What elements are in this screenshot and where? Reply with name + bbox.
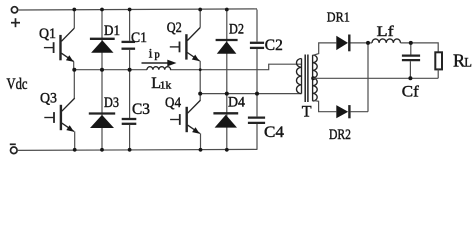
diode D1 (90, 39, 115, 53)
svg-text:DR2: DR2 (329, 127, 351, 143)
node bottom rail / Q3 (73, 148, 77, 152)
node bottom rail / D3 (100, 148, 104, 152)
negative input terminal (11, 147, 18, 154)
svg-text:T: T (302, 104, 312, 121)
wire node to Lf (368, 42, 372, 44)
wire RL lower leg (437, 69, 439, 78)
svg-text:D4: D4 (228, 95, 246, 111)
node top rail / Q2 (198, 8, 202, 12)
capacitor C2 (250, 43, 264, 48)
diode D3 (89, 114, 115, 129)
wire DR1 cathode to node (351, 42, 369, 44)
svg-text:Q3: Q3 (40, 91, 57, 107)
node top rail / Q1 (72, 8, 76, 12)
node bottom rail / Q4 (199, 148, 203, 152)
wire Q2 collector leg (199, 10, 201, 28)
wire C4 upper leg (256, 94, 258, 117)
wire C2 lower leg (256, 49, 258, 94)
wire secondary top to DR1 (313, 43, 337, 56)
wire Q3 emitter leg (74, 131, 76, 149)
node Lf / Cf (409, 41, 413, 45)
node rail A / C1 C3 (128, 68, 132, 72)
svg-text:i: i (149, 46, 153, 61)
diode D2 (216, 40, 238, 54)
wire Cf upper leg (410, 43, 412, 55)
wire top positive rail (18, 9, 257, 10)
node Cf / return rail (408, 76, 412, 80)
node rail B / Q2 Q4 (198, 92, 202, 96)
transistor Q2 (170, 28, 200, 62)
wire D2 leg (226, 10, 228, 94)
transformer secondary winding (313, 55, 318, 101)
svg-text:R: R (453, 50, 465, 70)
node rail A crossing Q2 leg (199, 68, 202, 71)
positive input terminal (11, 7, 17, 13)
svg-text:D2: D2 (229, 22, 244, 38)
inductor L1k (147, 67, 171, 70)
node bottom rail / D4 (225, 148, 229, 152)
rectifier diode DR2 (336, 105, 349, 118)
wire rectifier output vertical (367, 43, 369, 112)
wire Q4 emitter leg (200, 133, 202, 149)
wire C4 lower leg (256, 124, 258, 150)
wire Q1 collector leg (73, 10, 75, 29)
svg-text:p: p (155, 50, 160, 61)
capacitor Cf (402, 56, 420, 61)
svg-text:C4: C4 (264, 124, 284, 141)
transistor Q4 (170, 100, 200, 134)
wire Q2 emitter leg (199, 61, 201, 94)
node rectifier output (366, 41, 370, 45)
capacitor C1 (122, 42, 136, 49)
wire C2 upper leg (256, 10, 258, 42)
current arrow ip (142, 60, 177, 67)
svg-text:Q1: Q1 (39, 26, 56, 42)
wire Q1 emitter leg (73, 62, 75, 70)
diode D4 (213, 113, 238, 127)
resistor RL (435, 52, 442, 69)
node top rail / D1 (100, 8, 104, 12)
svg-text:Vdc: Vdc (7, 76, 28, 93)
transistor Q1 (44, 28, 74, 62)
wire C1 upper leg (129, 10, 131, 41)
svg-text:Q4: Q4 (165, 95, 181, 111)
wire Cf lower leg (409, 61, 411, 78)
node rail B / D2 D4 (225, 92, 229, 96)
wire C3 upper leg (129, 70, 131, 118)
svg-text:C3: C3 (132, 101, 150, 118)
capacitor C3 (122, 119, 137, 124)
wire D1 leg (101, 10, 103, 70)
node top rail / D2 (225, 8, 229, 12)
svg-text:C2: C2 (265, 37, 283, 54)
rectifier diode DR1 (336, 35, 349, 52)
svg-text:1k: 1k (160, 81, 172, 92)
minus sign label (10, 143, 16, 145)
node rail A / Q1 Q3 (72, 68, 76, 72)
wire bottom negative rail (17, 149, 257, 150)
transformer primary winding (297, 59, 302, 94)
wire Q3 collector leg (73, 70, 75, 98)
node top rail / C1 (128, 8, 132, 12)
svg-text:C1: C1 (131, 30, 147, 46)
wire D3 leg (101, 70, 103, 150)
wire Lf to RL top (401, 43, 439, 52)
wire rail A left section (74, 69, 147, 71)
plus sign label (11, 18, 20, 27)
wire D4 leg (226, 94, 228, 150)
wire secondary bottom to DR2 (313, 100, 337, 111)
transistor Q3 (44, 98, 74, 132)
svg-text:D1: D1 (104, 23, 120, 39)
wire Q4 collector leg (199, 94, 201, 101)
wire output return rail (313, 77, 438, 79)
wire C1 lower leg (129, 50, 131, 70)
svg-text:Cf: Cf (402, 84, 420, 101)
svg-text:DR1: DR1 (327, 11, 350, 26)
svg-text:D3: D3 (104, 95, 119, 111)
node bottom rail / C3 (128, 148, 132, 152)
wire DR2 cathode to node (351, 111, 368, 113)
node secondary centre tap (311, 76, 315, 80)
svg-text:Q2: Q2 (167, 20, 182, 36)
wire rail B to transformer primary bottom (200, 93, 301, 95)
node rail A / D1 D3 (100, 68, 104, 72)
wire rail A to transformer primary top (170, 64, 302, 70)
node rail B / C2 C4 (255, 92, 259, 96)
svg-text:L: L (464, 56, 472, 70)
wire C3 lower leg (129, 125, 131, 150)
capacitor C4 (248, 118, 265, 123)
svg-text:Lf: Lf (377, 24, 394, 40)
inductor Lf (372, 39, 400, 43)
transformer core (305, 55, 308, 103)
